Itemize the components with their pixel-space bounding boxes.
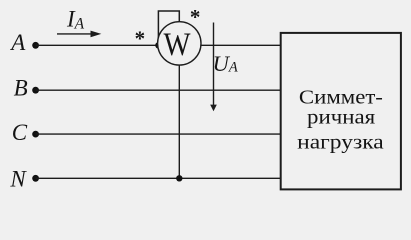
wattmeter U1 circle — [158, 22, 201, 65]
voltage arrow U_A — [210, 23, 217, 112]
current coil loop of wattmeter — [158, 11, 179, 45]
node A terminal — [32, 42, 39, 49]
svg-text:Симмет-: Симмет- — [299, 86, 383, 108]
load box: symmetric load — [281, 33, 401, 190]
wire voltage coil to N — [178, 65, 180, 178]
svg-text:C: C — [12, 120, 28, 145]
wire B — [36, 89, 282, 91]
wire C — [36, 133, 282, 135]
arrow I_A — [57, 31, 101, 38]
svg-text:A: A — [9, 30, 26, 55]
junction dot at wattmeter left — [155, 42, 161, 48]
junction dot on N — [176, 175, 182, 181]
node B terminal — [32, 87, 39, 94]
svg-text:*: * — [135, 26, 146, 50]
node N terminal — [32, 175, 39, 182]
node C terminal — [32, 131, 39, 138]
svg-text:W: W — [164, 27, 192, 63]
svg-text:нагрузка: нагрузка — [297, 132, 384, 154]
svg-text:B: B — [14, 76, 28, 101]
svg-text:N: N — [9, 167, 27, 192]
wire A right segment — [201, 44, 282, 46]
wire A left segment — [36, 44, 159, 46]
svg-text:ричная: ричная — [307, 107, 375, 129]
wire N — [36, 177, 282, 179]
